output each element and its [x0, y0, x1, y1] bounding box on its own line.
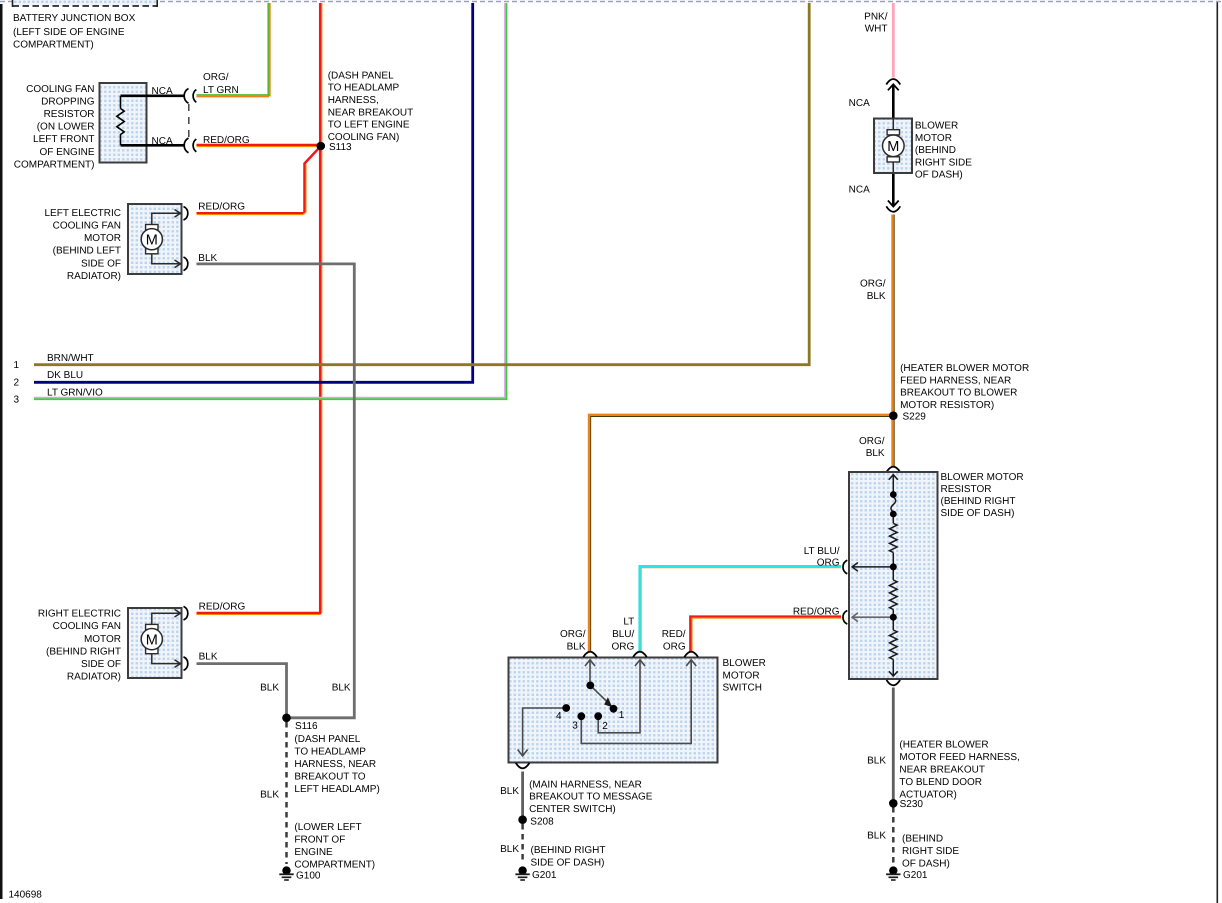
- label ORG/LT GRN: [203, 72, 239, 96]
- svg-text:G100: G100: [296, 871, 321, 882]
- svg-text:MOTOR RESISTOR): MOTOR RESISTOR): [900, 400, 994, 411]
- svg-text:RADIATOR): RADIATOR): [67, 271, 121, 282]
- svg-text:CENTER SWITCH): CENTER SWITCH): [529, 804, 616, 815]
- svg-text:FRONT OF: FRONT OF: [294, 834, 345, 845]
- svg-text:(BEHIND: (BEHIND: [902, 833, 943, 844]
- wire ORG/BLK blower down to S229 and resistor: [893, 215, 895, 467]
- svg-text:TO HEADLAMP: TO HEADLAMP: [294, 747, 366, 758]
- svg-text:MOTOR: MOTOR: [915, 133, 952, 144]
- svg-text:BLK: BLK: [199, 652, 218, 663]
- svg-text:COOLING FAN: COOLING FAN: [26, 84, 94, 95]
- wire BRN/WHT (row 1): [34, 3, 809, 365]
- svg-text:RIGHT SIDE: RIGHT SIDE: [902, 846, 959, 857]
- label ORG/BLK upper: [860, 279, 886, 302]
- battery junction box (cut off at top): [13, 0, 158, 7]
- svg-text:DK BLU: DK BLU: [47, 370, 83, 381]
- svg-text:BLK: BLK: [567, 641, 586, 652]
- svg-text:S113: S113: [329, 142, 352, 153]
- wire LT GRN/VIO (row 3): [34, 3, 507, 399]
- svg-text:NEAR BREAKOUT: NEAR BREAKOUT: [328, 107, 414, 118]
- svg-text:2: 2: [602, 721, 608, 732]
- node S208 junction dot: [518, 815, 527, 824]
- ground G100: [279, 866, 293, 880]
- svg-text:BLK: BLK: [260, 790, 279, 801]
- svg-text:(HEATER BLOWER MOTOR: (HEATER BLOWER MOTOR: [900, 363, 1029, 374]
- motor M1: left electric cooling fan motor: [128, 204, 182, 274]
- svg-text:G201: G201: [532, 870, 557, 881]
- svg-text:(DASH PANEL: (DASH PANEL: [328, 70, 394, 81]
- wire BLK dashed S230 to G201 right: [892, 807, 895, 864]
- svg-text:M: M: [146, 632, 158, 648]
- svg-text:M: M: [146, 232, 158, 248]
- svg-text:BRN/WHT: BRN/WHT: [47, 353, 94, 364]
- svg-text:SIDE OF DASH): SIDE OF DASH): [531, 858, 605, 869]
- svg-text:RIGHT SIDE: RIGHT SIDE: [915, 157, 972, 168]
- motor M2: right electric cooling fan motor: [128, 608, 182, 678]
- svg-text:BLOWER: BLOWER: [723, 658, 766, 669]
- label cooling fan dropping resistor: [14, 84, 95, 171]
- node S229 junction dot: [889, 411, 898, 420]
- connector arc resistor left taps: [843, 560, 847, 624]
- label ORG/BLK lower: [859, 436, 885, 459]
- label blower motor: [915, 121, 972, 181]
- wire ORG/LT GRN vertical trunk: [268, 3, 270, 96]
- svg-text:RESISTOR: RESISTOR: [44, 109, 95, 120]
- svg-text:WHT: WHT: [865, 24, 888, 35]
- svg-text:BLK: BLK: [500, 786, 519, 797]
- svg-text:ORG/: ORG/: [860, 279, 886, 290]
- svg-text:ORG/: ORG/: [859, 436, 885, 447]
- node S116 junction dot: [282, 714, 291, 723]
- label PNK/WHT: [864, 12, 888, 35]
- svg-text:(BEHIND RIGHT: (BEHIND RIGHT: [531, 845, 606, 856]
- node S113 junction dot: [317, 142, 326, 151]
- svg-text:BATTERY JUNCTION BOX: BATTERY JUNCTION BOX: [13, 13, 136, 24]
- svg-text:RADIATOR): RADIATOR): [67, 672, 121, 683]
- svg-text:RED/ORG: RED/ORG: [203, 135, 250, 146]
- connector pair NCA top (dropping resistor): [184, 89, 196, 104]
- label RED/ORG switch: [662, 629, 686, 653]
- connector arcs left fan motor: [184, 207, 188, 271]
- svg-text:BLK: BLK: [260, 683, 279, 694]
- label LT BLU/ORG right: [804, 546, 840, 569]
- label heater blower motor feed harness S230: [899, 740, 1019, 801]
- svg-text:SIDE OF DASH): SIDE OF DASH): [941, 508, 1015, 519]
- page border right: [1217, 2, 1219, 903]
- svg-text:3: 3: [14, 394, 20, 405]
- svg-text:COOLING FAN: COOLING FAN: [53, 221, 121, 232]
- motor M3: blower motor: [874, 119, 912, 174]
- svg-text:DROPPING: DROPPING: [41, 96, 95, 107]
- connector arcs right fan motor: [184, 606, 188, 670]
- svg-text:NCA: NCA: [849, 98, 870, 109]
- svg-text:RED/ORG: RED/ORG: [198, 202, 245, 213]
- wire BLK right fan motor to S116: [197, 664, 287, 718]
- wire DK BLU (row 2): [34, 3, 473, 382]
- svg-text:LEFT HEADLAMP): LEFT HEADLAMP): [294, 784, 379, 795]
- svg-text:(MAIN HARNESS, NEAR: (MAIN HARNESS, NEAR: [529, 780, 642, 791]
- svg-text:G201: G201: [903, 870, 928, 881]
- svg-text:LEFT ELECTRIC: LEFT ELECTRIC: [45, 208, 122, 219]
- svg-text:TO LEFT ENGINE: TO LEFT ENGINE: [328, 120, 410, 131]
- label behind right side of dash (right): [902, 833, 959, 869]
- connector dome resistor bottom: [887, 680, 901, 685]
- svg-text:S208: S208: [530, 816, 554, 827]
- label dash panel harness S113: [328, 70, 414, 142]
- svg-text:BLK: BLK: [867, 830, 886, 841]
- svg-text:3: 3: [572, 721, 578, 732]
- svg-text:1: 1: [619, 710, 625, 721]
- svg-text:BLU/: BLU/: [612, 629, 634, 640]
- wire ORG/LT GRN horizontal to connector: [197, 95, 270, 97]
- svg-text:BREAKOUT TO: BREAKOUT TO: [294, 772, 365, 783]
- svg-text:2: 2: [14, 377, 20, 388]
- connector dome resistor top: [887, 467, 901, 472]
- wire RED/ORG horizontal to right fan motor: [197, 613, 322, 615]
- svg-text:(DASH PANEL: (DASH PANEL: [294, 734, 360, 745]
- resistor R1: blower motor resistor box: [849, 472, 938, 679]
- svg-text:(LOWER LEFT: (LOWER LEFT: [294, 822, 361, 833]
- svg-text:ORG/: ORG/: [560, 629, 586, 640]
- connector blower top (arc + arrow up): [886, 79, 900, 90]
- switch SW1: blower motor switch box: [509, 658, 718, 763]
- wire RED/ORG branch S113 to left fan motor: [197, 148, 320, 215]
- wire BLK left fan motor to S116: [197, 264, 355, 718]
- label ORG/BLK switch: [560, 629, 586, 653]
- svg-text:RED/ORG: RED/ORG: [793, 606, 840, 617]
- svg-text:(BEHIND RIGHT: (BEHIND RIGHT: [941, 496, 1016, 507]
- svg-text:(BEHIND LEFT: (BEHIND LEFT: [53, 246, 121, 257]
- svg-text:NCA: NCA: [152, 86, 173, 97]
- label left electric cooling fan motor: [45, 208, 122, 282]
- svg-text:NCA: NCA: [152, 136, 173, 147]
- svg-text:MOTOR: MOTOR: [84, 233, 121, 244]
- resistor: cooling fan dropping resistor box: [100, 83, 185, 163]
- svg-text:MOTOR: MOTOR: [84, 634, 121, 645]
- label battery junction box: [13, 13, 136, 51]
- svg-text:(LEFT SIDE OF ENGINE: (LEFT SIDE OF ENGINE: [13, 27, 125, 38]
- svg-text:SWITCH: SWITCH: [723, 683, 762, 694]
- label main harness S208: [529, 780, 653, 816]
- svg-text:COMPARTMENT): COMPARTMENT): [294, 859, 375, 870]
- wire PNK/WHT top: [892, 3, 895, 78]
- svg-text:NEAR BREAKOUT: NEAR BREAKOUT: [899, 765, 985, 776]
- svg-text:TO BLEND DOOR: TO BLEND DOOR: [899, 777, 982, 788]
- svg-text:ORG: ORG: [612, 641, 635, 652]
- wire BLK dashed S116 to G100: [285, 722, 288, 864]
- svg-text:FEED HARNESS, NEAR: FEED HARNESS, NEAR: [900, 375, 1011, 386]
- wire RED/ORG horizontal into S113: [197, 145, 321, 147]
- svg-text:ORG: ORG: [817, 558, 840, 569]
- label blower motor resistor: [941, 472, 1024, 519]
- svg-text:COMPARTMENT): COMPARTMENT): [13, 40, 94, 51]
- svg-text:BREAKOUT TO MESSAGE: BREAKOUT TO MESSAGE: [529, 792, 653, 803]
- svg-text:SIDE OF: SIDE OF: [81, 258, 121, 269]
- svg-text:ORG/: ORG/: [203, 72, 229, 83]
- wire LT BLU/ORG resistor to switch: [640, 566, 841, 651]
- svg-text:OF ENGINE: OF ENGINE: [39, 147, 94, 158]
- svg-text:BLK: BLK: [500, 844, 519, 855]
- svg-text:MOTOR: MOTOR: [723, 670, 760, 681]
- svg-text:S230: S230: [900, 799, 924, 810]
- ground G201 (center): [515, 866, 529, 880]
- svg-text:HARNESS,: HARNESS,: [328, 95, 379, 106]
- svg-text:BLK: BLK: [866, 448, 885, 459]
- svg-text:BLOWER: BLOWER: [915, 121, 958, 132]
- label LT BLU/ORG switch: [612, 616, 635, 652]
- svg-text:HARNESS, NEAR: HARNESS, NEAR: [294, 759, 376, 770]
- wire ORG/BLK horizontal S229 to switch drop: [589, 415, 891, 652]
- svg-text:RED/: RED/: [662, 629, 686, 640]
- svg-text:RESISTOR: RESISTOR: [941, 484, 992, 495]
- svg-text:LEFT FRONT: LEFT FRONT: [33, 134, 94, 145]
- wire RED/ORG vertical trunk x=320.5: [320, 3, 322, 614]
- tap RED/ORG: [852, 616, 893, 618]
- label behind right side of dash (center): [531, 845, 606, 869]
- page border top (dashed): [0, 1, 1222, 3]
- svg-text:RED/ORG: RED/ORG: [199, 602, 246, 613]
- dashed connector link: [188, 104, 190, 137]
- svg-text:BLK: BLK: [332, 683, 351, 694]
- ground G201 (right): [886, 866, 900, 880]
- svg-text:ORG: ORG: [663, 641, 686, 652]
- svg-text:TO HEADLAMP: TO HEADLAMP: [328, 83, 400, 94]
- wire NCA black blower bottom: [892, 173, 895, 206]
- svg-text:LT GRN/VIO: LT GRN/VIO: [47, 388, 103, 399]
- wire BLK switch to S208: [521, 772, 524, 820]
- label blower motor switch: [723, 658, 766, 694]
- connector dome switch bottom: [516, 763, 530, 768]
- page border left: [0, 4, 3, 899]
- svg-text:SIDE OF: SIDE OF: [81, 659, 121, 670]
- svg-text:PNK/: PNK/: [864, 12, 888, 23]
- svg-text:LT: LT: [623, 616, 634, 627]
- svg-text:(ON LOWER: (ON LOWER: [37, 122, 95, 133]
- svg-text:BLK: BLK: [198, 253, 217, 264]
- svg-text:(BEHIND: (BEHIND: [915, 145, 956, 156]
- wire BLK resistor to S230: [892, 688, 895, 804]
- svg-text:COMPARTMENT): COMPARTMENT): [14, 159, 95, 170]
- svg-text:140698: 140698: [9, 890, 43, 901]
- wire RED/ORG resistor to switch: [690, 617, 841, 652]
- svg-text:OF DASH): OF DASH): [902, 858, 950, 869]
- connector domes switch top: [583, 652, 698, 657]
- svg-text:BLK: BLK: [867, 291, 886, 302]
- svg-text:NCA: NCA: [849, 185, 870, 196]
- svg-text:4: 4: [556, 711, 562, 722]
- svg-text:BLK: BLK: [867, 755, 886, 766]
- svg-text:(BEHIND RIGHT: (BEHIND RIGHT: [46, 646, 121, 657]
- svg-text:ENGINE: ENGINE: [294, 847, 333, 858]
- svg-text:1: 1: [14, 360, 20, 371]
- svg-text:M: M: [887, 139, 899, 155]
- svg-text:COOLING FAN: COOLING FAN: [53, 621, 121, 632]
- svg-text:S229: S229: [903, 412, 927, 423]
- wire NCA black blower top: [892, 85, 895, 119]
- svg-text:MOTOR FEED HARNESS,: MOTOR FEED HARNESS,: [899, 752, 1019, 763]
- label lower left front: [294, 822, 375, 871]
- node S230 junction dot: [889, 799, 898, 808]
- label dash panel to headlamp harness S116: [294, 734, 379, 795]
- svg-text:LT BLU/: LT BLU/: [804, 546, 840, 557]
- svg-text:BREAKOUT TO BLOWER: BREAKOUT TO BLOWER: [900, 388, 1017, 399]
- svg-text:OF DASH): OF DASH): [915, 170, 963, 181]
- svg-text:S116: S116: [295, 721, 318, 732]
- tap LT BLU/ORG: [852, 566, 893, 568]
- svg-text:BLOWER MOTOR: BLOWER MOTOR: [941, 472, 1024, 483]
- connector pair NCA bottom (dropping resistor): [184, 138, 196, 153]
- svg-text:(HEATER BLOWER: (HEATER BLOWER: [899, 740, 988, 751]
- connector blower bottom (arrow down + arc): [886, 201, 900, 212]
- label right electric cooling fan motor: [38, 609, 121, 683]
- label heater blower motor feed harness S229: [900, 363, 1029, 411]
- svg-text:LT GRN: LT GRN: [203, 85, 239, 96]
- svg-text:RIGHT ELECTRIC: RIGHT ELECTRIC: [38, 609, 121, 620]
- wire BLK dashed S208 to G201: [521, 824, 524, 864]
